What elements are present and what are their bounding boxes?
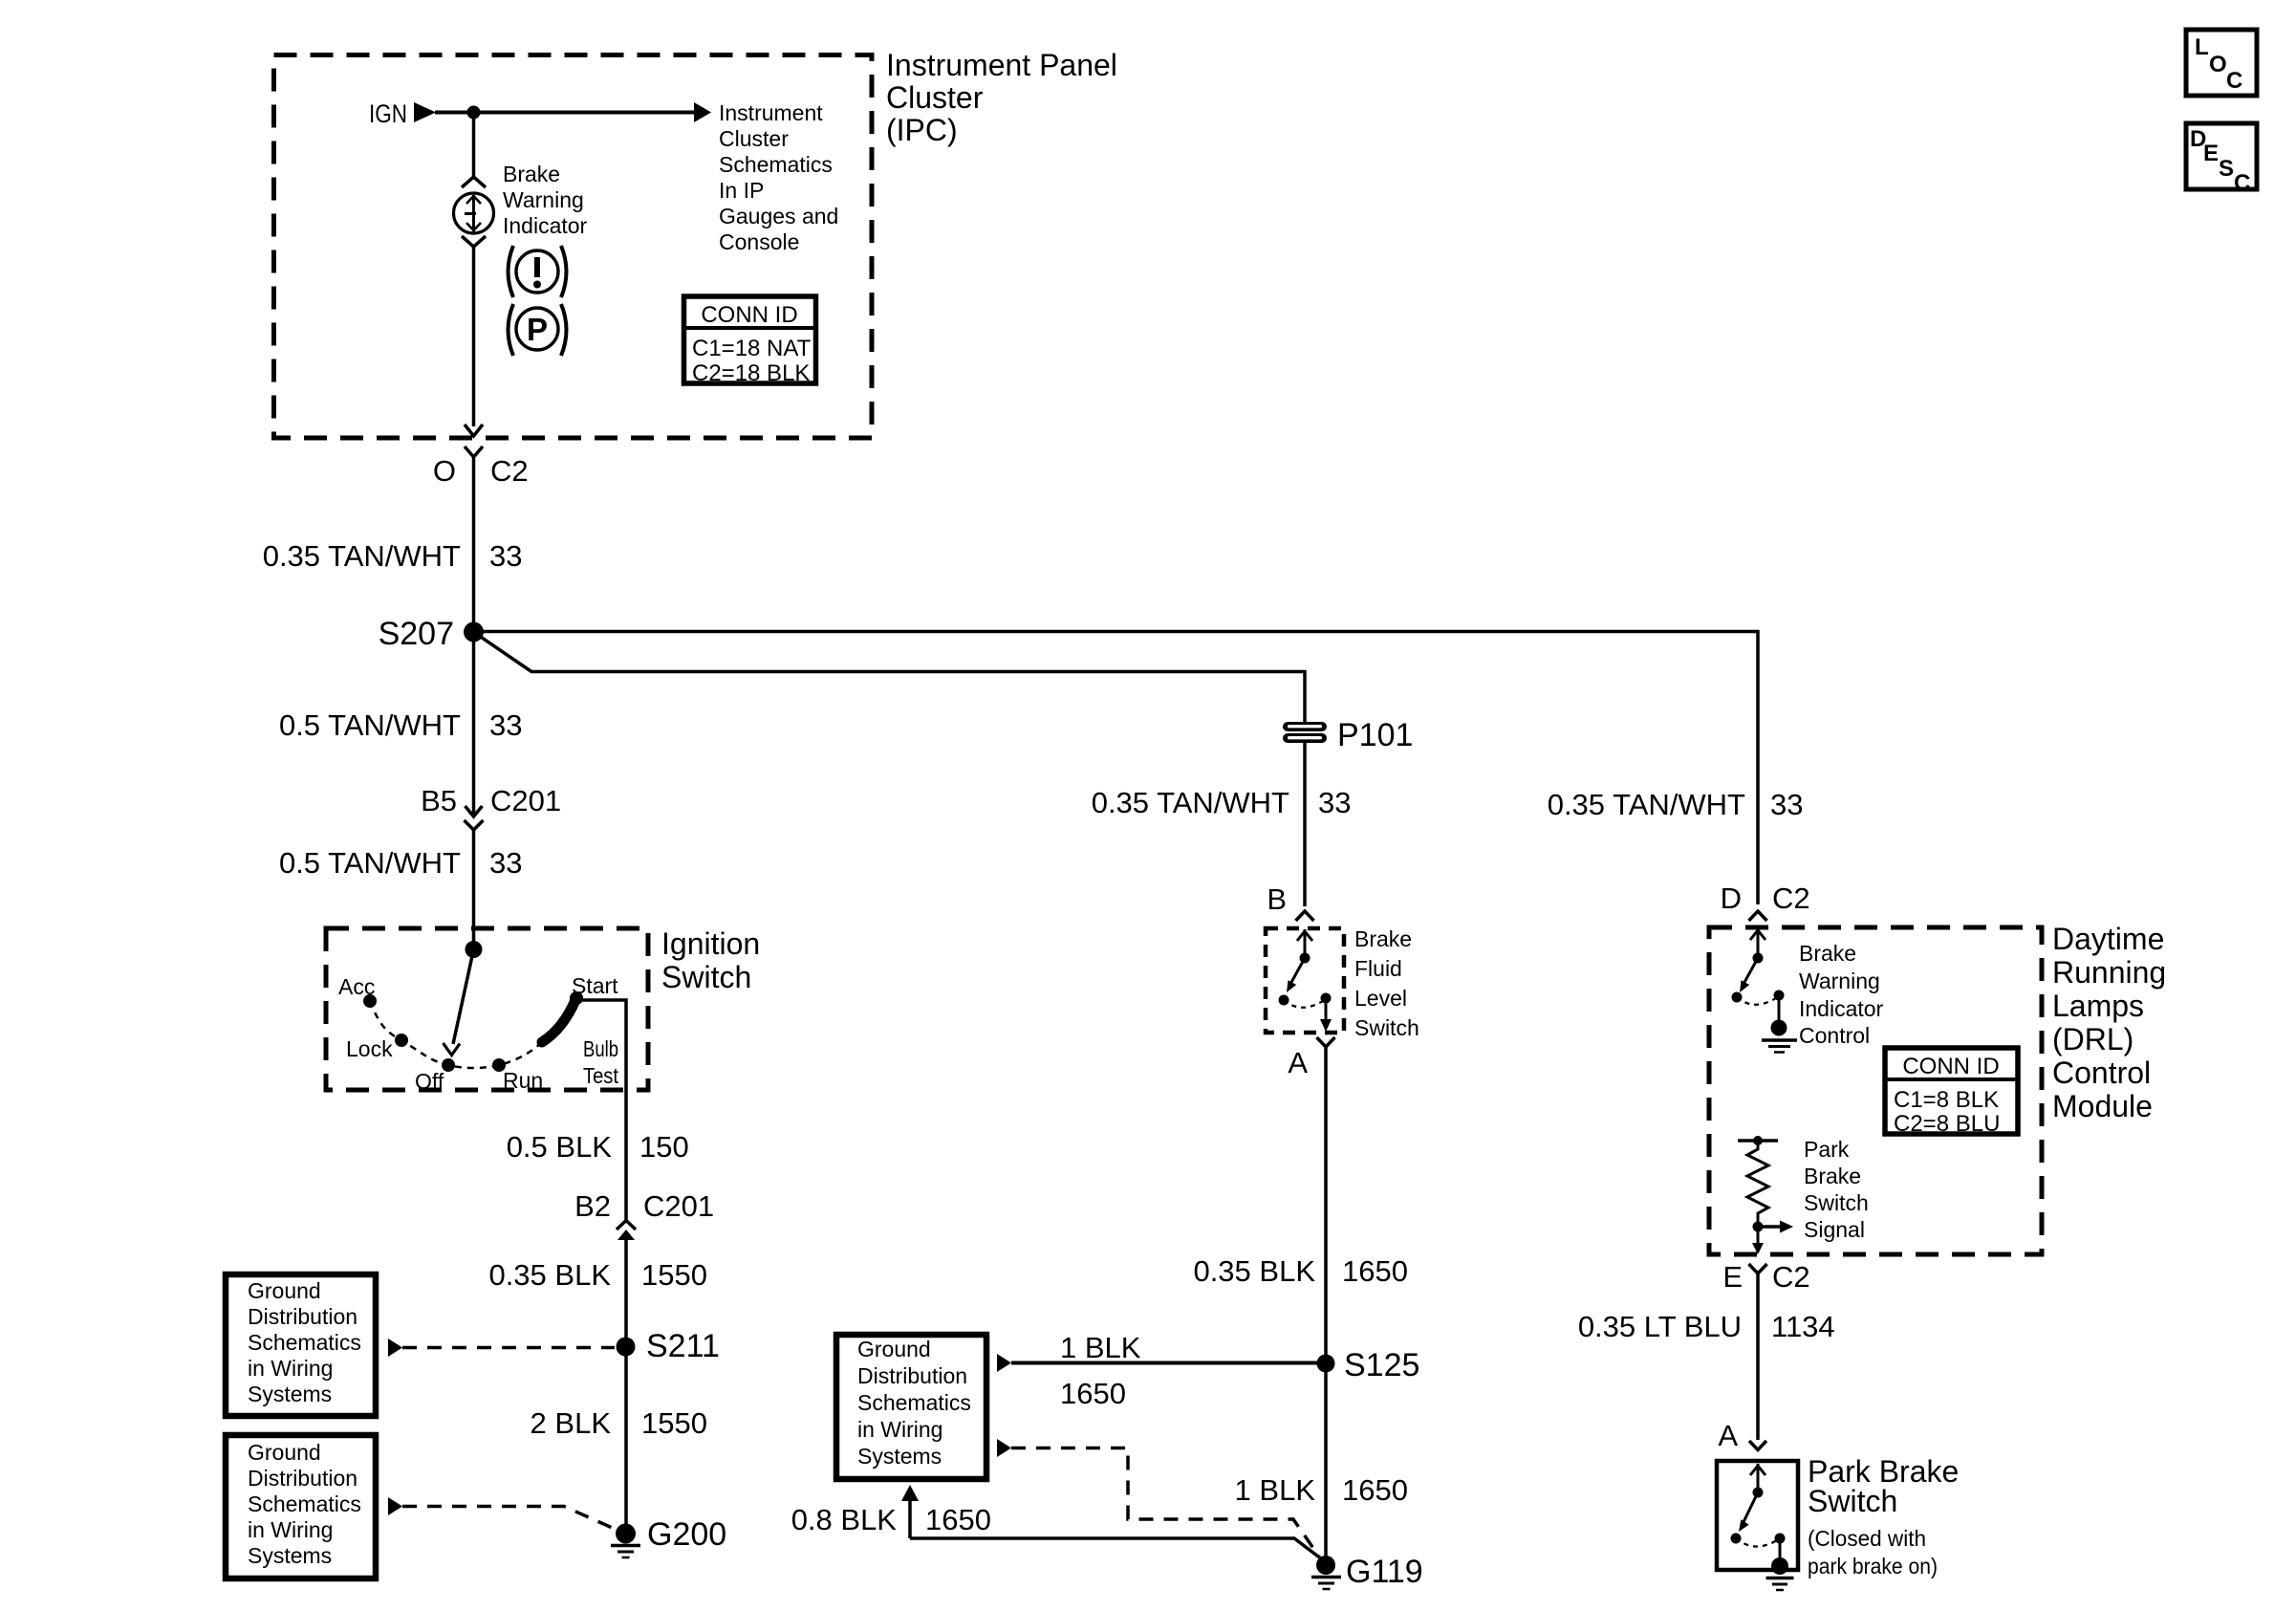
svg-text:Distribution: Distribution — [248, 1304, 357, 1329]
svg-text:A: A — [1288, 1046, 1308, 1079]
node: ignition switch pivot dot — [466, 941, 483, 958]
svg-text:Console: Console — [719, 229, 799, 254]
svg-text:Ground: Ground — [857, 1337, 931, 1361]
connector chevron A (park brake switch) — [1749, 1441, 1766, 1450]
DRL: park brake switch signal node with arrow — [1753, 1221, 1794, 1233]
svg-text:P: P — [527, 312, 548, 347]
module box: Ignition Switch (dashed) — [326, 928, 648, 1090]
svg-text:1650: 1650 — [1060, 1377, 1126, 1410]
svg-text:O: O — [433, 454, 456, 488]
svg-text:Ground: Ground — [248, 1440, 321, 1465]
label: Brake Warning Indicator Control — [1799, 941, 1884, 1048]
wire label 0.35 BLK 1550 — [488, 1258, 707, 1292]
svg-text:Schematics: Schematics — [857, 1390, 971, 1415]
dashed reference line to S211 with arrow — [388, 1339, 615, 1357]
svg-text:P101: P101 — [1337, 717, 1413, 753]
svg-text:Schematics: Schematics — [719, 152, 833, 177]
wire: S207 to DRL module — [474, 632, 1759, 905]
ignition position dot Acc — [363, 994, 377, 1008]
wire: C2 to S207 — [472, 457, 476, 632]
svg-text:Schematics: Schematics — [248, 1491, 361, 1516]
svg-text:1 BLK: 1 BLK — [1235, 1473, 1316, 1507]
DRL: contact dots and dashed arc — [1732, 991, 1785, 1005]
svg-text:Brake: Brake — [1354, 926, 1412, 951]
ignition position dot Off — [442, 1058, 455, 1072]
svg-text:0.5 TAN/WHT: 0.5 TAN/WHT — [279, 708, 461, 742]
svg-text:Off: Off — [415, 1069, 444, 1094]
wire label 1 BLK 1650 (lower) — [1235, 1473, 1408, 1507]
svg-text:1134: 1134 — [1771, 1310, 1835, 1343]
label: Daytime Running Lamps (DRL) Control Module — [2052, 922, 2166, 1123]
wire: S207 down to C201 — [472, 632, 476, 815]
DRL: switch arm with arrowhead — [1740, 958, 1758, 992]
svg-text:Distribution: Distribution — [248, 1466, 357, 1491]
svg-text:C201: C201 — [490, 784, 561, 817]
svg-text:Lamps: Lamps — [2052, 989, 2144, 1023]
wire: IGN bus horizontal — [435, 111, 695, 115]
svg-text:Gauges and: Gauges and — [719, 204, 838, 229]
svg-text:Instrument Panel: Instrument Panel — [886, 48, 1117, 82]
wire: S207 to P101 branch — [474, 632, 1306, 723]
svg-text:C1=8 BLK: C1=8 BLK — [1894, 1087, 1999, 1113]
svg-text:Park: Park — [1804, 1137, 1850, 1162]
svg-text:S: S — [2219, 156, 2234, 182]
ground G119 — [1311, 1554, 1423, 1590]
lamp: Brake Warning Indicator — [454, 193, 494, 233]
node S211 — [617, 1328, 720, 1364]
svg-text:Control: Control — [1799, 1023, 1870, 1048]
brake fluid switch: arm with arrowhead — [1287, 958, 1305, 992]
connector chevron A — [1317, 1037, 1335, 1047]
CONN ID table (DRL) — [1885, 1048, 2018, 1137]
park brake switch: ground — [1766, 1538, 1794, 1590]
dashed detent arc Acc-Lock-Off-Run — [370, 1001, 542, 1068]
svg-text:(IPC): (IPC) — [886, 113, 958, 147]
telltale symbol (!) — [509, 246, 567, 297]
wire label 0.35 TAN/WHT 33 (right) — [1548, 788, 1804, 821]
ground distribution box (middle) — [836, 1335, 986, 1479]
svg-text:(Closed with: (Closed with — [1808, 1526, 1926, 1551]
connector chevron B — [1296, 911, 1314, 921]
svg-text:0.5 BLK: 0.5 BLK — [507, 1130, 613, 1164]
svg-text:Indicator: Indicator — [1799, 996, 1884, 1021]
svg-text:C: C — [2226, 68, 2242, 94]
module box: Park Brake Switch (solid) — [1717, 1461, 1798, 1570]
pin labels O / C2 — [433, 454, 529, 488]
svg-text:Acc: Acc — [338, 974, 375, 999]
wire label 1 BLK / 1650 — [1060, 1331, 1141, 1410]
svg-text:C2=18 BLK: C2=18 BLK — [692, 360, 810, 386]
svg-text:B5: B5 — [421, 784, 457, 817]
svg-text:1650: 1650 — [1342, 1254, 1408, 1288]
pin labels B2 / C201 — [574, 1189, 714, 1223]
brake fluid switch: input arrow and stem — [1297, 929, 1312, 964]
pin labels D / C2 — [1721, 882, 1810, 915]
connector chevron E/C2 — [1749, 1264, 1767, 1274]
svg-text:Brake: Brake — [1804, 1164, 1861, 1188]
wire label 0.5 TAN/WHT 33 (above C201) — [279, 708, 523, 742]
svg-text:C2: C2 — [1772, 882, 1810, 915]
module box: DRL Control Module (dashed) — [1709, 927, 2042, 1254]
svg-text:in Wiring: in Wiring — [248, 1517, 333, 1542]
svg-text:Systems: Systems — [248, 1382, 332, 1406]
svg-text:Module: Module — [2052, 1089, 2153, 1123]
svg-text:Cluster: Cluster — [719, 126, 789, 151]
svg-text:O: O — [2209, 52, 2227, 77]
IGN feed arrow — [414, 102, 436, 122]
ground G200 — [611, 1516, 726, 1557]
svg-text:33: 33 — [1770, 788, 1803, 821]
svg-text:Brake: Brake — [503, 162, 560, 186]
connector chevron D/C2 — [1749, 911, 1767, 921]
svg-text:Switch: Switch — [1804, 1190, 1869, 1215]
wire: E to park brake switch — [1756, 1274, 1760, 1440]
svg-text:CONN ID: CONN ID — [701, 302, 797, 328]
svg-text:park brake on): park brake on) — [1808, 1554, 1938, 1578]
svg-text:Ground: Ground — [248, 1278, 321, 1303]
svg-text:Systems: Systems — [857, 1444, 942, 1469]
DRL: input arrow and stem — [1750, 928, 1765, 964]
wire: Start to exit — [577, 1000, 626, 1220]
wire: 0.8 BLK ground lead with up arrow — [901, 1485, 1326, 1562]
svg-text:In IP: In IP — [719, 178, 764, 203]
svg-text:A: A — [1718, 1419, 1738, 1452]
label Bulb Test — [583, 1036, 619, 1088]
svg-text:Test: Test — [583, 1063, 619, 1088]
svg-text:B: B — [1267, 882, 1287, 916]
dashed reference line to G200 with arrow — [388, 1497, 617, 1530]
svg-text:0.35 LT BLU: 0.35 LT BLU — [1578, 1310, 1742, 1343]
connector B5/C201 (arrow + chevron) — [465, 806, 484, 830]
svg-text:B2: B2 — [574, 1189, 611, 1223]
svg-text:S211: S211 — [646, 1328, 720, 1364]
node: IGN junction dot — [467, 106, 481, 120]
svg-text:in Wiring: in Wiring — [857, 1417, 942, 1442]
park brake switch: contact dots and dashed arc — [1731, 1534, 1786, 1547]
wire: ground box to S125 with arrow — [997, 1354, 1326, 1372]
svg-text:L: L — [2195, 34, 2209, 60]
node S125 — [1317, 1347, 1420, 1383]
wire: S125 to G119 — [1324, 1363, 1328, 1558]
svg-text:Lock: Lock — [346, 1036, 393, 1061]
wire label 0.35 TAN/WHT 33 (middle) — [1092, 786, 1352, 819]
svg-text:in Wiring: in Wiring — [248, 1356, 333, 1381]
svg-text:Fluid: Fluid — [1354, 956, 1402, 981]
module box: Brake Fluid Level Switch (dashed) — [1266, 928, 1344, 1033]
telltale symbol (P) — [509, 304, 567, 356]
svg-text:C1=18 NAT: C1=18 NAT — [692, 336, 812, 361]
svg-text:1550: 1550 — [641, 1406, 707, 1440]
pass-through grommet P101 — [1283, 717, 1413, 753]
svg-text:33: 33 — [489, 846, 522, 880]
svg-text:Switch: Switch — [1808, 1484, 1897, 1518]
connector B2/C201 (chevron + arrow up) — [617, 1221, 636, 1241]
svg-text:G119: G119 — [1346, 1554, 1423, 1590]
label: Park Brake Switch Signal — [1804, 1137, 1869, 1242]
park brake switch: arm with arrowhead — [1739, 1492, 1758, 1532]
svg-text:C2=8 BLU: C2=8 BLU — [1894, 1111, 2000, 1137]
svg-text:Daytime: Daytime — [2052, 922, 2164, 956]
svg-text:150: 150 — [639, 1130, 689, 1164]
wire: C201 to ignition switch — [472, 830, 476, 949]
svg-text:Run: Run — [503, 1068, 543, 1093]
svg-text:Switch: Switch — [1354, 1015, 1419, 1040]
svg-text:1 BLK: 1 BLK — [1060, 1331, 1141, 1364]
wire: P101 to brake fluid level switch — [1303, 743, 1307, 906]
DRL: output arrow to E — [1752, 1227, 1764, 1254]
svg-text:0.8 BLK: 0.8 BLK — [791, 1503, 898, 1536]
svg-text:33: 33 — [1318, 786, 1351, 819]
CONN ID table (IPC) — [684, 296, 816, 386]
svg-text:33: 33 — [489, 539, 522, 573]
svg-text:C2: C2 — [1772, 1260, 1810, 1294]
svg-text:E: E — [1722, 1260, 1743, 1294]
module box: Instrument Panel Cluster (dashed) — [274, 55, 873, 439]
svg-text:IGN: IGN — [369, 99, 407, 128]
svg-text:Systems: Systems — [248, 1543, 332, 1568]
svg-text:Schematics: Schematics — [248, 1330, 361, 1355]
thick Bulb Test arc — [542, 1000, 575, 1042]
wire: lamp down to IPC border — [472, 247, 476, 426]
label: Instrument Panel Cluster (IPC) — [886, 48, 1117, 147]
wire label 0.35 TAN/WHT 33 — [263, 539, 523, 573]
label: Ignition Switch — [661, 926, 760, 994]
svg-text:33: 33 — [489, 708, 522, 742]
svg-text:Start: Start — [572, 973, 618, 998]
svg-text:Bulb: Bulb — [583, 1036, 618, 1061]
wire label 0.35 BLK 1650 — [1193, 1254, 1408, 1288]
svg-text:Distribution: Distribution — [857, 1363, 967, 1388]
svg-text:Control: Control — [2052, 1056, 2151, 1090]
svg-text:C201: C201 — [643, 1189, 714, 1223]
svg-text:0.35 BLK: 0.35 BLK — [488, 1258, 611, 1292]
svg-text:E: E — [2203, 141, 2219, 166]
svg-text:1550: 1550 — [641, 1258, 707, 1292]
wire label 0.5 TAN/WHT 33 (below C201) — [279, 846, 523, 880]
label: Instrument Cluster Schematics In IP Gauges and Console — [719, 100, 838, 254]
label: Park Brake Switch — [1808, 1454, 1959, 1578]
svg-text:Level: Level — [1354, 986, 1407, 1011]
svg-text:S125: S125 — [1344, 1347, 1419, 1383]
svg-text:Cluster: Cluster — [886, 80, 984, 115]
wire label 0.5 BLK 150 — [507, 1130, 689, 1164]
dashed reference line from ground box to G119 — [997, 1439, 1319, 1557]
wire label 2 BLK 1550 — [531, 1406, 707, 1440]
label: Brake Warning Indicator — [503, 162, 588, 238]
svg-text:Warning: Warning — [1799, 969, 1880, 993]
svg-text:1650: 1650 — [1342, 1473, 1408, 1507]
svg-text:Signal: Signal — [1804, 1217, 1865, 1242]
connector chevron above lamp — [462, 177, 486, 187]
park brake switch: input arrow and stem — [1750, 1464, 1765, 1498]
svg-text:0.35 TAN/WHT: 0.35 TAN/WHT — [1092, 786, 1289, 819]
svg-text:Switch: Switch — [661, 960, 751, 994]
label: Brake Fluid Level Switch — [1354, 926, 1419, 1040]
brake fluid switch: output stem with arrow — [1320, 998, 1332, 1032]
arrow to instrument cluster schematics — [694, 102, 711, 122]
wire: A to S125 — [1324, 1047, 1328, 1363]
DRL: brake warning indicator control ground — [1762, 995, 1797, 1053]
svg-text:Instrument: Instrument — [719, 100, 823, 125]
wire: junction down to lamp — [472, 113, 476, 177]
svg-text:C2: C2 — [490, 454, 529, 488]
pin labels E / C2 — [1722, 1260, 1809, 1294]
svg-text:CONN ID: CONN ID — [1902, 1054, 1999, 1079]
svg-text:Warning: Warning — [503, 187, 584, 212]
svg-text:0.35 BLK: 0.35 BLK — [1193, 1254, 1315, 1288]
brake fluid switch: contact dots and dashed arc — [1279, 993, 1332, 1008]
svg-text:0.35 TAN/WHT: 0.35 TAN/WHT — [1548, 788, 1745, 821]
ignition position dot Run — [492, 1058, 506, 1072]
svg-text:0.5 TAN/WHT: 0.5 TAN/WHT — [279, 846, 461, 880]
wire label 0.8 BLK 1650 — [791, 1503, 991, 1536]
svg-text:Running: Running — [2052, 955, 2166, 990]
svg-text:Indicator: Indicator — [503, 213, 588, 238]
svg-text:1650: 1650 — [925, 1503, 991, 1536]
svg-text:D: D — [1721, 882, 1742, 915]
ground distribution box 1 — [226, 1274, 376, 1416]
DESC reference box — [2186, 123, 2257, 196]
svg-text:S207: S207 — [379, 616, 454, 652]
svg-text:2 BLK: 2 BLK — [531, 1406, 612, 1440]
svg-text:Brake: Brake — [1799, 941, 1856, 966]
connector arrow at IPC exit — [465, 425, 483, 436]
ignition position dot Start — [570, 991, 583, 1005]
connector chevron below lamp — [462, 236, 486, 247]
ignition position dot Lock — [395, 1034, 408, 1047]
pin labels B5 / C201 — [421, 784, 561, 817]
LOC reference box — [2186, 30, 2257, 96]
svg-text:0.35 TAN/WHT: 0.35 TAN/WHT — [263, 539, 461, 573]
svg-text:C: C — [2234, 170, 2250, 196]
svg-text:Ignition: Ignition — [661, 926, 760, 961]
connector chevron O/C2 — [465, 446, 483, 457]
wire label 0.35 LT BLU 1134 — [1578, 1310, 1835, 1343]
node S207 — [379, 616, 484, 652]
resistor: Park Brake Switch Signal pull-up — [1738, 1136, 1778, 1222]
ground distribution box 2 — [226, 1435, 376, 1578]
svg-text:(DRL): (DRL) — [2052, 1022, 2134, 1056]
svg-text:G200: G200 — [647, 1516, 726, 1553]
switch arm with arrowhead (to Off) — [444, 949, 474, 1056]
